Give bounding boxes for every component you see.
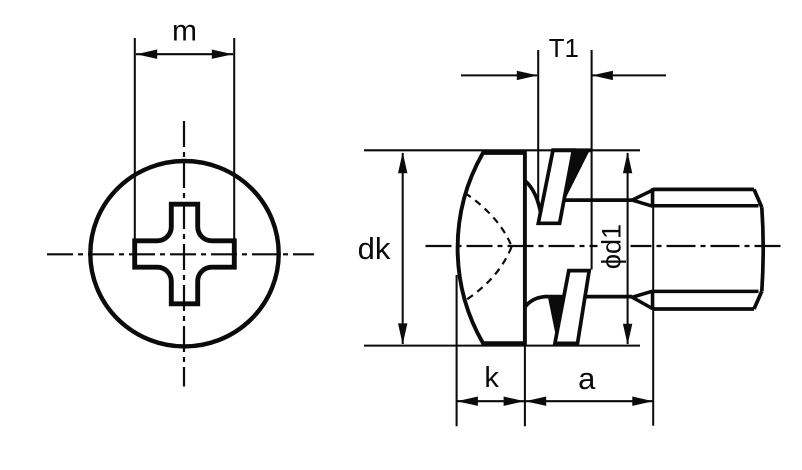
svg-text:m: m bbox=[172, 15, 197, 48]
svg-text:k: k bbox=[484, 362, 499, 394]
svg-text:ϕd1: ϕd1 bbox=[597, 224, 627, 269]
a arrowheads bbox=[525, 397, 546, 406]
k arrowheads bbox=[457, 397, 478, 406]
spring washer lower black section bbox=[548, 295, 565, 344]
spring washer upper black section bbox=[564, 148, 591, 201]
d1 arrowheads bbox=[623, 152, 632, 173]
svg-text:dk: dk bbox=[358, 231, 391, 266]
upper neck fillet bbox=[525, 181, 541, 215]
washer top edge bbox=[553, 149, 591, 153]
dk dimension line bbox=[402, 153, 404, 344]
spring washer lower section bbox=[555, 271, 589, 344]
dk/d1 bottom extension line bbox=[364, 345, 640, 347]
T1 extension line left bbox=[537, 50, 539, 206]
vertical centerline bbox=[183, 121, 185, 387]
dk/d1 top extension line bbox=[364, 149, 640, 151]
hidden recess dashed upper bbox=[465, 193, 512, 246]
right view centerline right part bbox=[631, 245, 781, 247]
thread crest vertical lower bbox=[651, 291, 655, 310]
screw end arc bbox=[762, 207, 763, 291]
thread crest vertical upper bbox=[651, 188, 655, 207]
shank lower line bbox=[545, 295, 632, 299]
m extension line left bbox=[134, 38, 136, 240]
head outline circle bbox=[90, 161, 278, 346]
T1 dimension line left bbox=[461, 74, 537, 76]
T1 dimension line right bbox=[593, 74, 667, 76]
T1 extension line right bbox=[591, 50, 593, 270]
thread runout lower bbox=[632, 291, 652, 308]
k and a dimension line bbox=[457, 400, 654, 402]
dk arrowheads bbox=[398, 152, 407, 173]
d1 dimension line bbox=[627, 153, 629, 344]
k extension line bbox=[456, 275, 458, 426]
T1 arrowheads bbox=[517, 71, 538, 80]
thread major line top bbox=[653, 188, 755, 192]
thread root line bottom bbox=[653, 290, 759, 294]
k/a extension line (bearing face) bbox=[524, 344, 526, 427]
spring washer upper section bbox=[538, 150, 573, 223]
m extension line right bbox=[233, 38, 235, 240]
lower neck fillet bbox=[525, 297, 547, 307]
screw head outline bbox=[458, 153, 525, 343]
right view centerline left part bbox=[426, 245, 598, 247]
horizontal centerline bbox=[47, 253, 314, 255]
thread root line top bbox=[653, 204, 759, 208]
thread runout upper bbox=[632, 190, 652, 206]
phillips recess cross bbox=[135, 204, 235, 304]
shank upper line bbox=[564, 198, 633, 202]
svg-text:T1: T1 bbox=[549, 33, 579, 63]
thread major line bottom bbox=[653, 307, 755, 311]
end chamfer bottom bbox=[754, 291, 762, 309]
svg-text:a: a bbox=[578, 361, 596, 396]
m arrowheads bbox=[136, 50, 157, 59]
end chamfer top bbox=[754, 189, 762, 207]
first full thread line bbox=[652, 190, 654, 426]
m dimension line bbox=[136, 53, 233, 55]
hidden recess dashed lower bbox=[466, 247, 512, 300]
